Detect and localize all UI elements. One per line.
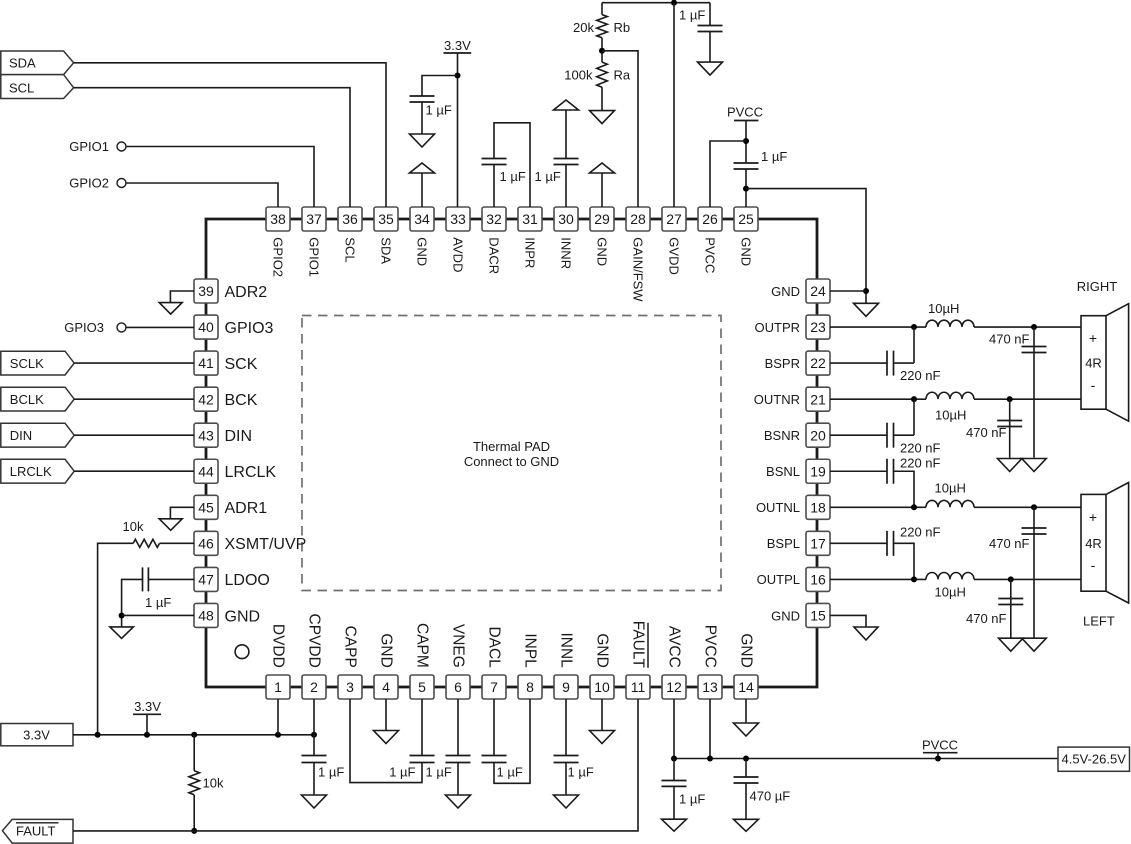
pin 2 CPVDD (302, 614, 326, 699)
wire pin 20 to cap (830, 434, 887, 436)
label Ra (614, 68, 631, 83)
wire pin 29 to ground arrow (601, 173, 603, 207)
terminal GPIO2 (69, 176, 126, 191)
svg-text:FAULT: FAULT (630, 621, 647, 669)
svg-text:SDA: SDA (379, 237, 394, 264)
svg-text:26: 26 (702, 211, 718, 227)
label 470 nF (989, 332, 1030, 347)
wire pin 3 CAPP to cap bottom (350, 699, 422, 783)
pin 43 DIN (194, 423, 252, 447)
terminal GPIO3 (64, 320, 126, 335)
wire rail to 10k (193, 735, 195, 771)
ground (159, 303, 182, 315)
svg-text:OUTNR: OUTNR (754, 392, 800, 407)
junction (191, 732, 197, 738)
wire OUTNR to inductor (830, 398, 926, 400)
svg-text:DIN: DIN (225, 428, 253, 445)
pin 14 GND (734, 633, 758, 699)
wire 10k to FAULT line (193, 795, 195, 831)
svg-text:BSPL: BSPL (767, 536, 800, 551)
speaker RIGHT (1077, 279, 1129, 421)
wire pin 22 to cap (830, 362, 887, 364)
ground (554, 795, 579, 808)
wire cap to pin 25 GND (745, 169, 747, 207)
svg-text:PVCC: PVCC (703, 237, 718, 273)
junction (911, 504, 917, 510)
junction (743, 186, 749, 192)
svg-text:5: 5 (418, 679, 426, 695)
svg-text:27: 27 (666, 211, 682, 227)
junction (707, 756, 713, 762)
svg-text:19: 19 (810, 463, 826, 479)
capacitor 1 uF (AVDD) (410, 96, 435, 102)
svg-text:LRCLK: LRCLK (10, 464, 52, 479)
label 1 uF (568, 765, 594, 780)
svg-text:BSPR: BSPR (765, 356, 800, 371)
wire arrow to cap (565, 110, 567, 159)
wire node to pin 48 GND (122, 614, 194, 616)
svg-text:OUTPL: OUTPL (757, 572, 800, 587)
svg-text:16: 16 (810, 572, 826, 588)
ground (590, 731, 615, 744)
svg-text:22: 22 (810, 355, 826, 371)
svg-text:470 nF: 470 nF (989, 332, 1030, 347)
capacitor 1 uF (VNEG) (446, 756, 471, 763)
label Rb (614, 20, 631, 35)
pin 35 SDA (374, 207, 398, 264)
label 220 nF (900, 525, 941, 540)
wire inductor to speaker + (974, 506, 1081, 508)
wire OUTPR to inductor (830, 326, 926, 328)
svg-text:4R: 4R (1085, 356, 1102, 371)
svg-text:40: 40 (198, 319, 214, 335)
flag FAULT (active low) (2, 819, 73, 843)
svg-text:GPIO3: GPIO3 (64, 320, 104, 335)
svg-text:ADR1: ADR1 (225, 500, 268, 517)
svg-text:17: 17 (810, 535, 826, 551)
wire to Rb (601, 3, 603, 15)
svg-text:SCLK: SCLK (10, 356, 44, 371)
svg-text:32: 32 (486, 211, 502, 227)
svg-text:20: 20 (810, 427, 826, 443)
svg-text:4.5V-26.5V: 4.5V-26.5V (1062, 752, 1127, 767)
wire pin 15 to ground (830, 615, 866, 627)
ground (302, 795, 327, 808)
ground (110, 627, 134, 639)
svg-text:CPVDD: CPVDD (306, 614, 323, 668)
capacitor 470 nF (OUTNR) (997, 421, 1022, 427)
pin 47 LDOO (194, 567, 270, 591)
wire pin 14 to ground (745, 699, 747, 723)
capacitor 1 uF (CAPP-CAPM) (410, 756, 435, 763)
svg-text:DVDD: DVDD (270, 624, 287, 668)
flag SCLK (1, 351, 74, 375)
inductor L 10uH (OUTPL) (926, 573, 974, 580)
svg-text:470 µF: 470 µF (750, 789, 791, 804)
svg-text:OUTPR: OUTPR (755, 320, 801, 335)
label 1 uF (500, 169, 526, 184)
junction (311, 732, 317, 738)
wire FAULT line to pin 11 (73, 699, 638, 831)
label 470 uF (750, 789, 791, 804)
label 1 uF (679, 792, 705, 807)
pin 23 OUTPR (755, 315, 831, 339)
inductor L 10uH (OUTNR) (926, 392, 974, 399)
ground (159, 519, 182, 531)
wire pin 45 ADR1 to ground (170, 507, 194, 519)
wire pin 2 CPVDD to rail/cap (313, 699, 315, 756)
wire PVCC symbol to rail (937, 753, 939, 759)
svg-text:GPIO1: GPIO1 (307, 237, 322, 277)
svg-text:220 nF: 220 nF (900, 441, 941, 456)
wire GPIO2 to pin 38 (126, 183, 278, 207)
svg-text:3.3V: 3.3V (444, 38, 471, 53)
svg-text:BCLK: BCLK (10, 392, 44, 407)
pin 26 PVCC (698, 207, 722, 273)
wire cap to pin 8 INPL (494, 699, 530, 783)
svg-text:GND: GND (739, 237, 754, 266)
junction (119, 612, 125, 618)
wire pin 4 to ground (385, 699, 387, 731)
pin 3 CAPP (338, 626, 362, 699)
svg-text:GPIO1: GPIO1 (69, 139, 109, 154)
capacitor 1 uF (AVCC) (662, 781, 687, 787)
svg-text:LEFT: LEFT (1083, 614, 1115, 629)
capacitor 220 nF (BSPR) (887, 351, 894, 376)
junction (671, 0, 677, 6)
svg-text:GAIN/FSW: GAIN/FSW (631, 237, 646, 302)
wire DIN to pin 43 (74, 434, 194, 436)
svg-text:10µH: 10µH (935, 481, 966, 496)
junction (275, 732, 281, 738)
wire LRCLK to pin 44 (74, 470, 194, 472)
svg-text:34: 34 (414, 211, 430, 227)
wire cap to node (894, 434, 915, 436)
label 220 nF (900, 456, 941, 471)
svg-text:10: 10 (594, 679, 610, 695)
svg-text:1 µF: 1 µF (145, 595, 171, 610)
wire cap to ground (745, 783, 747, 819)
label 10uH (935, 408, 966, 423)
svg-text:ADR2: ADR2 (225, 284, 268, 301)
junction (455, 73, 461, 79)
label 220 nF (900, 368, 941, 383)
resistor R 10k (XSMT pull-up) (133, 539, 159, 547)
svg-text:1 µF: 1 µF (568, 765, 594, 780)
svg-text:4: 4 (382, 679, 390, 695)
power rail PVCC (top) (727, 105, 763, 121)
label 1 uF (761, 149, 787, 164)
junction (1031, 504, 1037, 510)
wire OUTPL to inductor (830, 578, 926, 580)
svg-text:1 µF: 1 µF (497, 765, 523, 780)
label 1 uF (497, 765, 523, 780)
label 20k (573, 20, 594, 35)
svg-text:+: + (1089, 509, 1097, 525)
wire BSPR cap to OUTPR node (913, 327, 915, 363)
label 1 uF (679, 8, 705, 23)
label 1 uF (426, 103, 452, 118)
pin 11 FAULT (626, 621, 650, 699)
svg-text:SCL: SCL (9, 81, 34, 96)
capacitor 1 uF (GVDD) (698, 26, 723, 32)
wire GPIO1 to pin 37 (126, 147, 314, 208)
ground (374, 731, 399, 744)
flag LRCLK (1, 459, 74, 483)
svg-text:1 µF: 1 µF (500, 169, 526, 184)
wire cap to ground (457, 763, 459, 795)
svg-text:Connect to GND: Connect to GND (464, 454, 559, 469)
wire cap down to OUTNL node (894, 471, 915, 507)
junction (599, 48, 605, 54)
pin 39 ADR2 (194, 279, 267, 303)
svg-text:15: 15 (810, 608, 826, 624)
source box 4.5V-26.5V (1058, 747, 1130, 771)
wire pin 19 to cap (830, 470, 887, 472)
svg-text:1 µF: 1 µF (426, 103, 452, 118)
power rail 3.3V (top) (444, 38, 472, 53)
pin 48 GND (194, 603, 260, 627)
svg-text:48: 48 (198, 608, 214, 624)
svg-text:GND: GND (738, 633, 755, 667)
capacitor 470 nF (OUTNL) (1022, 528, 1047, 534)
wire cap to ground (565, 763, 567, 795)
svg-text:23: 23 (810, 319, 826, 335)
capacitor 220 nF (BSPL) (887, 531, 894, 556)
resistor Ra 100k (597, 62, 608, 87)
wire pin 5 CAPM to cap top (421, 699, 423, 756)
wire inductor to speaker - (974, 398, 1081, 400)
svg-text:Rb: Rb (614, 20, 631, 35)
svg-text:SCK: SCK (225, 356, 258, 373)
wire cap to pin 30 (565, 165, 567, 208)
svg-text:9: 9 (562, 679, 570, 695)
label 10k (203, 776, 224, 791)
wire cap to ground (421, 102, 423, 134)
capacitor 470 uF (bulk) (734, 777, 759, 783)
label 10k (123, 519, 144, 534)
flag BCLK (1, 387, 74, 411)
ground (pin 29) (590, 163, 615, 173)
wire cap-gnd over to pin24 ground (746, 189, 866, 304)
ground (997, 459, 1022, 472)
wire Rb to Ra (601, 38, 603, 62)
pin 6 VNEG (446, 624, 470, 699)
wire BSNR cap to OUTNR node (913, 399, 915, 435)
label 470 nF (989, 536, 1030, 551)
capacitor 220 nF (BSNR) (887, 423, 894, 448)
capacitor 1 uF (INNR) (554, 159, 579, 165)
junction (1008, 576, 1014, 582)
pin 40 GPIO3 (194, 315, 274, 339)
ground (734, 723, 759, 736)
pin 1 indicator circle (235, 645, 249, 659)
wire pin 39 ADR2 to ground (170, 291, 194, 303)
svg-text:RIGHT: RIGHT (1077, 279, 1118, 294)
pin 45 ADR1 (194, 495, 267, 519)
svg-text:6: 6 (454, 679, 462, 695)
svg-text:24: 24 (810, 283, 826, 299)
svg-text:1: 1 (274, 679, 282, 695)
svg-text:10µH: 10µH (935, 585, 966, 600)
wire GVDD top rail (602, 2, 710, 4)
wire pin 6 VNEG to cap (457, 699, 459, 756)
svg-text:-: - (1091, 377, 1096, 393)
pin 9 INNL (554, 632, 578, 699)
junction (743, 138, 749, 144)
ground (854, 303, 879, 316)
svg-text:GPIO2: GPIO2 (271, 237, 286, 277)
wire SDA to pin 35 (74, 63, 386, 207)
svg-text:SDA: SDA (9, 56, 36, 71)
svg-text:Ra: Ra (614, 68, 631, 83)
capacitor 470 nF (OUTPR) (1022, 347, 1047, 353)
junction (743, 756, 749, 762)
svg-text:47: 47 (198, 572, 214, 588)
svg-text:36: 36 (342, 211, 358, 227)
svg-text:1 µF: 1 µF (679, 792, 705, 807)
ground (734, 819, 759, 831)
wire pin 10 to ground (601, 699, 603, 731)
flag SDA (1, 51, 74, 75)
wire rail to bulk cap (745, 759, 747, 778)
wire cap to node (894, 362, 915, 364)
svg-text:220 nF: 220 nF (900, 456, 941, 471)
pin 17 BSPL (767, 531, 830, 555)
pin 24 GND (771, 279, 830, 303)
svg-text:3.3V: 3.3V (23, 728, 50, 743)
svg-text:10k: 10k (123, 519, 144, 534)
label 1 uF (426, 765, 452, 780)
label 100k (564, 68, 593, 83)
svg-text:3: 3 (346, 679, 354, 695)
svg-text:4R: 4R (1085, 536, 1102, 551)
pin 1 DVDD (266, 624, 290, 699)
pin 10 GND (590, 633, 614, 699)
wire pin 47 LDOO to cap (148, 578, 194, 580)
svg-text:43: 43 (198, 427, 214, 443)
junction (1007, 396, 1013, 402)
svg-text:8: 8 (526, 679, 534, 695)
svg-text:GND: GND (378, 633, 395, 667)
ground (999, 638, 1024, 651)
wire divider tap to pin 28 GAIN/FSW (602, 51, 638, 207)
wire pin 24 to ground (830, 290, 866, 292)
pin 16 OUTPL (757, 567, 830, 591)
svg-text:35: 35 (378, 211, 394, 227)
wire to C decoupling AVDD (422, 76, 458, 97)
wire PVCC input rail (674, 758, 1058, 760)
wire PVCC to cap (745, 121, 747, 164)
svg-text:3.3V: 3.3V (134, 699, 161, 714)
pin 25 GND (734, 207, 758, 266)
svg-text:1 µF: 1 µF (389, 765, 415, 780)
svg-text:10µH: 10µH (935, 408, 966, 423)
label 10uH (935, 585, 966, 600)
wire rail to GVDD cap (709, 3, 711, 26)
wire cap to ground (709, 32, 711, 63)
svg-text:220 nF: 220 nF (900, 368, 941, 383)
inductor L 10uH (OUTPR) (926, 320, 974, 327)
svg-text:LRCLK: LRCLK (225, 464, 277, 481)
junction (144, 732, 150, 738)
wire OUTNR node to 470nF (1009, 399, 1011, 458)
pin 44 LRCLK (194, 459, 276, 483)
svg-text:AVDD: AVDD (451, 237, 466, 272)
pin 31 INPR (518, 207, 542, 268)
svg-text:FAULT: FAULT (16, 824, 56, 839)
wire inductor to speaker - (974, 578, 1081, 580)
label 10uH (928, 301, 959, 316)
svg-text:45: 45 (198, 499, 214, 515)
svg-text:7: 7 (490, 679, 498, 695)
wire resistor to 3.3V rail (98, 543, 134, 734)
ground (446, 795, 471, 808)
pin 5 CAPM (410, 623, 434, 699)
wire cap to pin 32 (493, 165, 495, 208)
wire PVCC to pin 26 (710, 141, 746, 207)
junction (863, 288, 869, 294)
svg-text:31: 31 (522, 211, 538, 227)
svg-text:VNEG: VNEG (450, 624, 467, 668)
wire cap to ground node (122, 579, 143, 627)
svg-text:470 nF: 470 nF (966, 425, 1007, 440)
wire Ra to ground (601, 87, 603, 110)
wire rail to cap (673, 759, 675, 781)
junction (1031, 324, 1037, 330)
svg-text:CAPM: CAPM (414, 623, 431, 668)
svg-text:PVCC: PVCC (727, 105, 763, 120)
svg-text:OUTNL: OUTNL (756, 500, 800, 515)
capacitor 1 uF (CPVDD) (302, 756, 327, 763)
svg-text:25: 25 (738, 211, 754, 227)
pin 38 GPIO2 (266, 207, 290, 277)
power rail PVCC (bottom) (922, 738, 958, 753)
svg-text:1 µF: 1 µF (318, 765, 344, 780)
svg-text:BSNR: BSNR (764, 428, 800, 443)
ground (INNR arrow) (554, 100, 579, 110)
pin 34 GND (410, 207, 434, 266)
svg-text:46: 46 (198, 535, 214, 551)
svg-text:12: 12 (666, 679, 682, 695)
svg-text:GPIO2: GPIO2 (69, 176, 109, 191)
svg-text:10k: 10k (203, 776, 224, 791)
pin 12 AVCC (662, 626, 686, 699)
flag DIN (1, 423, 74, 447)
resistor R 10k (FAULT pull-up) (189, 771, 200, 795)
svg-text:PVCC: PVCC (702, 625, 719, 668)
junction (95, 732, 101, 738)
ground (1022, 638, 1047, 651)
svg-text:DIN: DIN (10, 428, 32, 443)
svg-text:41: 41 (198, 355, 214, 371)
ground (pin 34) (410, 163, 435, 173)
svg-text:GND: GND (225, 608, 261, 625)
svg-text:PVCC: PVCC (922, 738, 958, 753)
svg-text:28: 28 (630, 211, 646, 227)
label 1 uF (389, 765, 415, 780)
pin 4 GND (374, 633, 398, 699)
svg-text:DACR: DACR (487, 237, 502, 274)
svg-text:INNL: INNL (558, 632, 575, 668)
wire pin 17 to cap (830, 542, 887, 544)
svg-text:470 nF: 470 nF (989, 536, 1030, 551)
junction (935, 756, 941, 762)
svg-text:1 µF: 1 µF (426, 765, 452, 780)
label 1 uF (145, 595, 171, 610)
svg-text:14: 14 (738, 679, 754, 695)
svg-text:42: 42 (198, 391, 214, 407)
